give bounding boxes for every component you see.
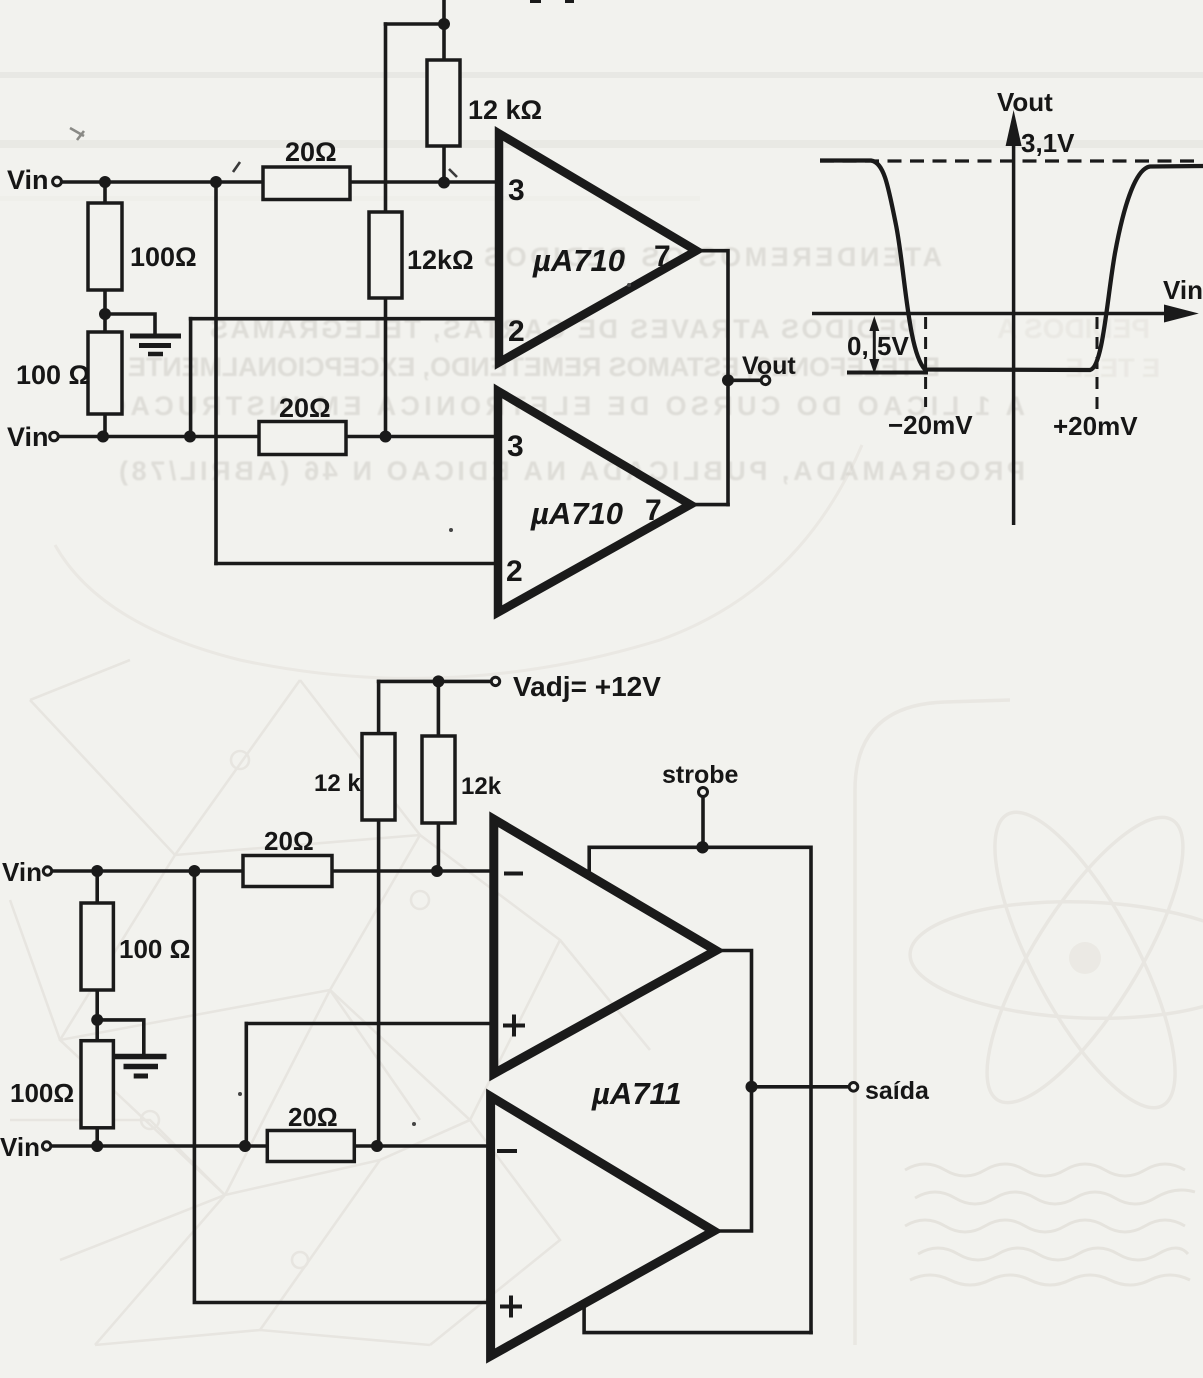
svg-text:Vout: Vout bbox=[742, 352, 796, 380]
svg-text:−20mV: −20mV bbox=[888, 410, 973, 440]
svg-text:A 1 LICAO DO CURSO DE ELETRONI: A 1 LICAO DO CURSO DE ELETRONICA EM INST… bbox=[105, 391, 1025, 421]
svg-text:µA710: µA710 bbox=[530, 496, 623, 531]
svg-text:2: 2 bbox=[506, 555, 523, 588]
svg-text:Vin: Vin bbox=[2, 857, 42, 887]
svg-text:7: 7 bbox=[654, 240, 671, 273]
svg-text:µA711: µA711 bbox=[591, 1076, 682, 1111]
svg-text:12 k: 12 k bbox=[314, 770, 361, 797]
svg-text:100 Ω: 100 Ω bbox=[119, 934, 190, 964]
svg-text:3,1V: 3,1V bbox=[1021, 128, 1075, 158]
svg-text:strobe: strobe bbox=[662, 761, 739, 789]
svg-text:12k: 12k bbox=[461, 773, 502, 800]
svg-text:E TELEFONES, ESTAMOS REMETENDO: E TELEFONES, ESTAMOS REMETENDO, EXCEPCIO… bbox=[128, 352, 940, 382]
svg-text:7: 7 bbox=[645, 494, 662, 527]
svg-text:12 kΩ: 12 kΩ bbox=[468, 95, 542, 125]
svg-text:PEDIDOS A: PEDIDOS A bbox=[997, 313, 1150, 344]
svg-text:0,: 0, bbox=[847, 331, 869, 361]
svg-text:Vin: Vin bbox=[7, 422, 49, 452]
svg-text:3: 3 bbox=[507, 430, 524, 463]
svg-text:µA710: µA710 bbox=[532, 243, 625, 278]
svg-text:saída: saída bbox=[865, 1077, 930, 1105]
svg-text:Vadj= +12V: Vadj= +12V bbox=[513, 671, 661, 702]
svg-text:Vin: Vin bbox=[0, 1132, 40, 1162]
svg-text:100Ω: 100Ω bbox=[130, 242, 197, 272]
svg-text:100 Ω: 100 Ω bbox=[16, 360, 90, 390]
svg-text:2: 2 bbox=[508, 315, 525, 348]
svg-text:Vin: Vin bbox=[1163, 275, 1203, 305]
svg-text:Vin: Vin bbox=[7, 165, 49, 195]
svg-text:12kΩ: 12kΩ bbox=[407, 245, 474, 275]
svg-text:20Ω: 20Ω bbox=[285, 137, 337, 167]
svg-text:Vout: Vout bbox=[997, 87, 1053, 117]
svg-text:20Ω: 20Ω bbox=[279, 393, 331, 423]
svg-text:+20mV: +20mV bbox=[1053, 411, 1138, 441]
svg-text:3: 3 bbox=[508, 174, 525, 207]
svg-text:20Ω: 20Ω bbox=[288, 1102, 338, 1132]
svg-text:5V: 5V bbox=[877, 331, 909, 361]
svg-text:100Ω: 100Ω bbox=[10, 1078, 74, 1108]
svg-text:20Ω: 20Ω bbox=[264, 826, 314, 856]
